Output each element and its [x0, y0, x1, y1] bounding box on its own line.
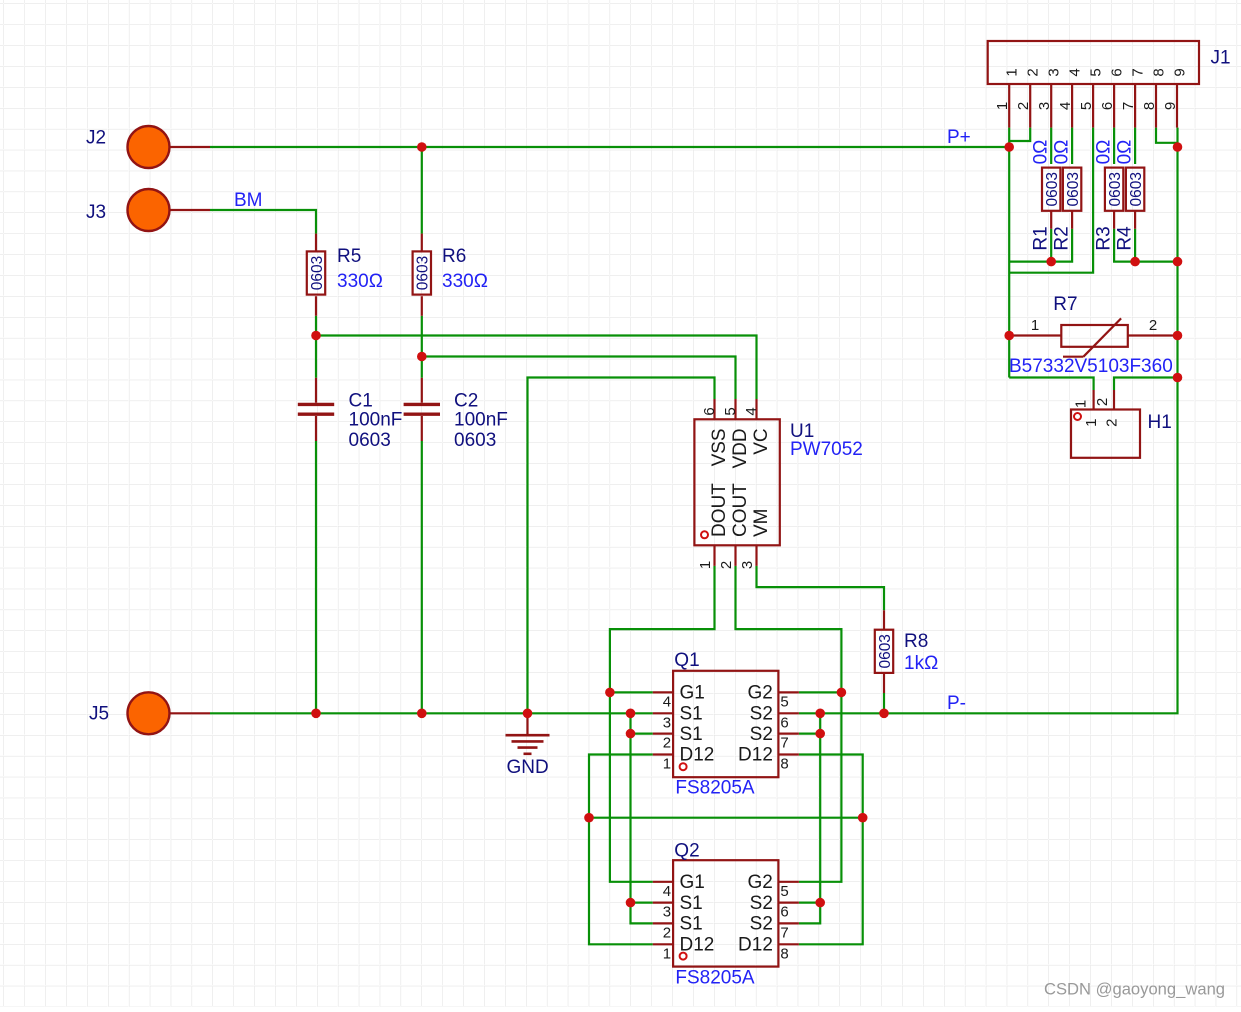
svg-text:R3: R3 — [1093, 226, 1114, 250]
svg-text:7: 7 — [780, 735, 788, 752]
wire P+ riser to R1/R2 rail and R7 pin1 — [1008, 147, 1010, 378]
svg-text:3: 3 — [663, 904, 671, 921]
svg-text:100nF: 100nF — [349, 410, 403, 431]
op-amp U1 PW7052 — [713, 399, 715, 419]
svg-text:J1: J1 — [1211, 48, 1231, 69]
wire Q2 S2 pin6 branch — [799, 901, 820, 903]
svg-text:GND: GND — [507, 757, 549, 778]
svg-text:D12: D12 — [738, 935, 773, 956]
svg-text:7: 7 — [780, 924, 788, 941]
svg-text:8: 8 — [1141, 102, 1158, 110]
svg-text:330Ω: 330Ω — [442, 271, 488, 292]
junction — [815, 709, 825, 719]
svg-text:0603: 0603 — [415, 256, 432, 290]
wire Q1 D12 left down to D12 rail — [589, 755, 653, 945]
svg-text:1: 1 — [1083, 419, 1100, 427]
svg-text:H1: H1 — [1148, 412, 1172, 433]
svg-text:6: 6 — [780, 714, 788, 731]
transistor Q2 FS8205A — [673, 860, 778, 966]
svg-text:0Ω: 0Ω — [1114, 140, 1135, 165]
svg-text:2: 2 — [1015, 102, 1032, 110]
svg-text:S1: S1 — [680, 893, 703, 914]
svg-text:1: 1 — [1031, 317, 1039, 334]
svg-text:COUT: COUT — [730, 483, 751, 537]
junction — [311, 331, 321, 341]
wire Q1 S1 pin2 branch — [631, 732, 653, 734]
wire R1 bottom — [1050, 229, 1052, 262]
resistor R8 1k&#937; 0603 — [883, 610, 885, 629]
wire S2 chain Q1 to Q2 — [799, 713, 820, 923]
junction — [584, 813, 594, 823]
wire C1 bottom to P- line — [315, 441, 317, 713]
wire J1 pin8 jog to pin9 — [1156, 128, 1178, 143]
svg-text:S2: S2 — [750, 893, 773, 914]
wire H1 pin2 link — [1114, 378, 1178, 391]
wire node to C1 top — [315, 336, 317, 378]
svg-text:G1: G1 — [680, 872, 705, 893]
svg-text:6: 6 — [701, 407, 718, 415]
junction — [417, 142, 427, 152]
wire J1 pin5 jog down to R7 net — [1009, 128, 1093, 273]
svg-text:C1: C1 — [349, 391, 373, 412]
svg-text:PW7052: PW7052 — [790, 439, 863, 460]
svg-text:5: 5 — [780, 693, 788, 710]
svg-text:4: 4 — [1067, 68, 1084, 76]
svg-text:CSDN @gaoyong_wang: CSDN @gaoyong_wang — [1044, 980, 1225, 999]
wire Q1 D12 right down to D12 rail — [799, 755, 863, 945]
svg-text:R7: R7 — [1053, 294, 1077, 315]
svg-text:J3: J3 — [86, 202, 106, 223]
wire Q2 S1 pin3 branch — [631, 901, 653, 903]
resistor R3 0&#937; 0603 — [1113, 211, 1115, 229]
pad J2 — [169, 146, 210, 148]
wire H1 pin1 link — [1009, 378, 1093, 391]
svg-text:0603: 0603 — [1128, 172, 1145, 206]
svg-text:B57332V5103F360: B57332V5103F360 — [1009, 356, 1173, 377]
wire U1 pin1 DOUT to Q1/Q2 G1 — [610, 566, 715, 882]
wire R6 bottom to node — [421, 316, 423, 357]
wire R5/C1 node to U1 pin4 VC — [316, 336, 757, 400]
svg-text:4: 4 — [1057, 102, 1074, 110]
svg-text:5: 5 — [1088, 68, 1105, 76]
wire J1 pin4 to R2 top — [1071, 128, 1073, 164]
junction — [1173, 373, 1183, 383]
junction — [879, 709, 889, 719]
wire R6/C2 node to U1 pin5 VDD — [422, 357, 736, 400]
junction — [858, 813, 868, 823]
svg-text:330Ω: 330Ω — [337, 271, 383, 292]
svg-text:R8: R8 — [904, 631, 928, 652]
wire GND net to U1 pin6 VSS — [528, 378, 715, 714]
svg-text:Q1: Q1 — [674, 650, 699, 671]
svg-text:S2: S2 — [750, 914, 773, 935]
svg-text:2: 2 — [1025, 68, 1042, 76]
svg-text:1: 1 — [697, 561, 714, 569]
pad J3 — [169, 209, 210, 211]
junction — [605, 688, 615, 698]
junction — [1046, 257, 1056, 267]
transistor Q1 FS8205A — [673, 671, 778, 777]
svg-text:0603: 0603 — [1044, 172, 1061, 206]
wire R8 bottom to P- line — [883, 693, 885, 713]
wire R4 bottom — [1134, 229, 1136, 262]
svg-text:VDD: VDD — [730, 428, 751, 468]
svg-text:R2: R2 — [1051, 226, 1072, 250]
svg-text:4: 4 — [743, 407, 760, 415]
junction — [417, 352, 427, 362]
resistor R5 330&#937; 0603 — [315, 234, 317, 251]
svg-text:0Ω: 0Ω — [1051, 140, 1072, 165]
wire R1/R2 bottom rail — [1009, 229, 1072, 262]
svg-text:1: 1 — [1004, 68, 1021, 76]
junction — [1173, 257, 1183, 267]
svg-text:1kΩ: 1kΩ — [904, 653, 938, 674]
svg-text:0603: 0603 — [349, 430, 391, 451]
svg-text:2: 2 — [663, 924, 671, 941]
svg-text:R1: R1 — [1031, 226, 1052, 250]
svg-text:S2: S2 — [750, 704, 773, 725]
junction — [417, 709, 427, 719]
svg-text:G2: G2 — [748, 683, 773, 704]
junction — [1004, 331, 1014, 341]
wire U1 pin3 VM to R8 top — [757, 566, 885, 610]
wire J1 pin2 jog to P+ node — [1009, 128, 1030, 141]
wire node to C2 top — [421, 357, 423, 378]
svg-text:8: 8 — [780, 945, 788, 962]
wire R3/R4 bottom rail — [1114, 229, 1177, 262]
svg-text:3: 3 — [1046, 68, 1063, 76]
svg-text:BM: BM — [234, 190, 263, 211]
svg-text:4: 4 — [663, 693, 671, 710]
wire J1 pin9 riser down right side — [1176, 128, 1178, 378]
svg-text:3: 3 — [663, 714, 671, 731]
svg-text:J5: J5 — [89, 704, 109, 725]
wire J1 pin7 to R4 top — [1134, 128, 1136, 164]
junction — [1173, 331, 1183, 341]
wire P+ net: J2 to J1 pin1 — [210, 146, 1009, 148]
svg-text:9: 9 — [1172, 68, 1189, 76]
header H1 — [1092, 390, 1094, 410]
svg-text:100nF: 100nF — [454, 410, 508, 431]
svg-text:8: 8 — [780, 756, 788, 773]
svg-text:5: 5 — [780, 883, 788, 900]
svg-text:P+: P+ — [947, 127, 971, 148]
svg-text:0603: 0603 — [454, 430, 496, 451]
svg-text:J2: J2 — [86, 128, 106, 149]
wire J1 pin3 to R1 top — [1050, 128, 1052, 164]
svg-text:2: 2 — [1149, 317, 1157, 334]
svg-text:Q2: Q2 — [674, 841, 699, 862]
svg-text:C2: C2 — [454, 391, 478, 412]
capacitor C2 100nF 0603 — [421, 378, 423, 403]
resistor R1 0&#937; 0603 — [1050, 211, 1052, 229]
svg-text:6: 6 — [1109, 68, 1126, 76]
svg-text:0603: 0603 — [1065, 172, 1082, 206]
svg-text:G1: G1 — [680, 683, 705, 704]
svg-text:1: 1 — [663, 756, 671, 773]
wire D12 rail horizontal — [589, 817, 863, 819]
svg-text:2: 2 — [1104, 419, 1121, 427]
ground GND — [526, 713, 528, 735]
svg-text:G2: G2 — [748, 872, 773, 893]
junction — [815, 729, 825, 739]
wire C2 bottom to P- line — [421, 441, 423, 713]
junction — [523, 709, 533, 719]
svg-text:S1: S1 — [680, 704, 703, 725]
svg-text:8: 8 — [1151, 68, 1168, 76]
junction — [311, 709, 321, 719]
junction — [1130, 257, 1140, 267]
svg-text:4: 4 — [663, 883, 671, 900]
junction — [815, 898, 825, 908]
wire Q1 S2 pin7 branch — [799, 732, 820, 734]
svg-text:S2: S2 — [750, 724, 773, 745]
resistor R2 0&#937; 0603 — [1071, 211, 1073, 229]
svg-text:S1: S1 — [680, 914, 703, 935]
wire R5 bottom to node — [315, 316, 317, 336]
wire BM net: J3 to R5 — [210, 210, 316, 234]
junction — [1173, 142, 1183, 152]
svg-text:D12: D12 — [738, 745, 773, 766]
svg-text:3: 3 — [1036, 102, 1053, 110]
svg-text:5: 5 — [1078, 102, 1095, 110]
svg-text:2: 2 — [718, 561, 735, 569]
svg-text:0Ω: 0Ω — [1093, 140, 1114, 165]
svg-text:FS8205A: FS8205A — [675, 968, 755, 989]
junction — [1004, 142, 1014, 152]
wire U1 pin2 COUT to Q1/Q2 G2 — [736, 566, 842, 882]
svg-text:6: 6 — [780, 904, 788, 921]
svg-text:0Ω: 0Ω — [1031, 140, 1052, 165]
svg-text:7: 7 — [1130, 68, 1147, 76]
svg-text:6: 6 — [1099, 102, 1116, 110]
resistor R6 330&#937; 0603 — [421, 234, 423, 251]
wire J1 pin6 to R3 top — [1113, 128, 1115, 164]
wire P- line left: J5 to Q1 pin3 S1 — [210, 712, 653, 714]
svg-text:0603: 0603 — [1107, 172, 1124, 206]
junction — [626, 729, 636, 739]
svg-text:VSS: VSS — [709, 428, 730, 466]
svg-text:0603: 0603 — [877, 634, 894, 668]
svg-text:3: 3 — [739, 561, 756, 569]
wire J1 pin1 drop to P+ — [1008, 128, 1010, 147]
wire G1 branch to Q1 — [610, 691, 653, 693]
wire G2 branch to Q1 — [799, 691, 842, 693]
junction — [837, 688, 847, 698]
svg-text:2: 2 — [663, 735, 671, 752]
wire S1 chain Q1 to Q2 — [631, 713, 653, 923]
svg-text:DOUT: DOUT — [709, 483, 730, 537]
svg-text:1: 1 — [994, 102, 1011, 110]
svg-text:VM: VM — [751, 509, 772, 538]
resistor R4 0&#937; 0603 — [1134, 211, 1136, 229]
thermistor R7 B57332V5103F360 — [1013, 334, 1061, 336]
wire P- line right: Q1 pin6 S2 to right riser — [799, 378, 1178, 714]
svg-text:5: 5 — [722, 407, 739, 415]
svg-text:R4: R4 — [1114, 226, 1135, 251]
wire P+ to R6 top — [421, 147, 423, 234]
svg-text:FS8205A: FS8205A — [675, 778, 755, 799]
junction — [626, 898, 636, 908]
svg-text:R5: R5 — [337, 246, 361, 267]
svg-text:2: 2 — [1094, 398, 1111, 406]
capacitor C1 100nF 0603 — [315, 378, 317, 403]
svg-text:9: 9 — [1162, 102, 1179, 110]
pad J5 — [169, 712, 210, 714]
svg-text:0603: 0603 — [309, 256, 326, 290]
svg-text:S1: S1 — [680, 724, 703, 745]
connector J1 — [988, 41, 1199, 84]
svg-text:1: 1 — [663, 945, 671, 962]
svg-text:P-: P- — [947, 693, 966, 714]
svg-text:1: 1 — [1073, 400, 1090, 408]
svg-text:7: 7 — [1120, 102, 1137, 110]
svg-text:R6: R6 — [442, 246, 466, 267]
junction — [626, 709, 636, 719]
svg-text:VC: VC — [751, 428, 772, 454]
